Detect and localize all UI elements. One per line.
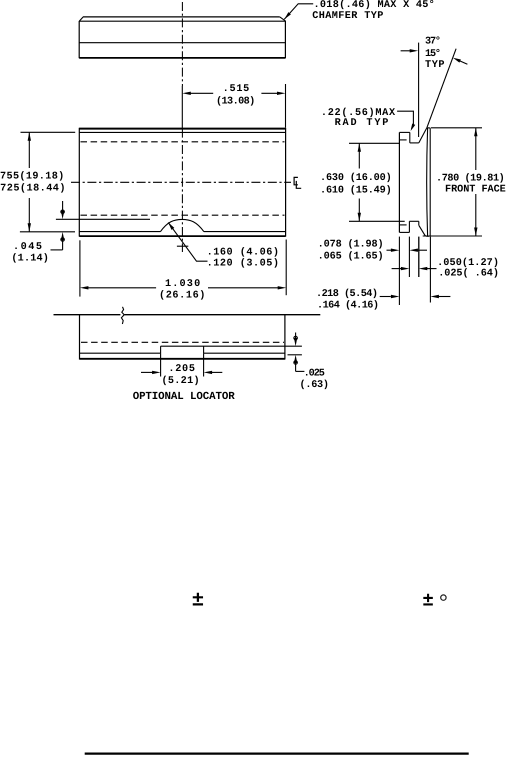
svg-text:OPTIONAL LOCATOR: OPTIONAL LOCATOR — [133, 391, 236, 403]
.160/.120 leader line — [168, 222, 207, 261]
bottom view: right edge — [284, 315, 286, 360]
svg-text:.630 (16.00): .630 (16.00) — [320, 172, 392, 184]
svg-text:.755(19.18): .755(19.18) — [0, 171, 64, 183]
.045 lower arrow (up) — [61, 232, 64, 241]
.755 bottom arrow — [28, 223, 31, 232]
top view: bottom edge — [79, 57, 285, 59]
bottom view: top line left — [54, 314, 121, 316]
bottom view: break mark — [121, 307, 124, 324]
top view: left edge — [78, 21, 80, 58]
.025 upper arrow hook — [294, 336, 298, 340]
.205 right arrow — [204, 371, 213, 374]
.050 right arrow — [419, 267, 428, 270]
front view: horizontal centerline — [71, 181, 291, 183]
1.030 dim line right — [208, 287, 279, 289]
side view: top groove floor — [410, 142, 419, 144]
top view: front top edge — [79, 20, 285, 22]
.045 upper arrow (down) — [61, 211, 64, 220]
bottom view: inner line right — [204, 352, 285, 354]
top view: right edge — [284, 21, 286, 59]
angle dim right arrow — [453, 58, 461, 63]
svg-text:±: ± — [422, 589, 433, 611]
bottom view: locator top line + ext — [161, 345, 302, 347]
angle dim left arrow tail — [401, 50, 411, 52]
.630 ext line bottom — [349, 220, 405, 222]
side view: front face right line — [429, 128, 431, 236]
top view: top edge (chamfer crest) — [83, 16, 280, 18]
.780 dim line lower — [475, 194, 477, 236]
bottom view: bottom edge — [80, 358, 285, 360]
.078 right arrow tail — [418, 249, 428, 251]
ext line V2 groove wall — [408, 237, 410, 277]
svg-text:CHAMFER TYP: CHAMFER TYP — [312, 11, 383, 22]
svg-text:TYP: TYP — [425, 60, 445, 71]
ext line V3 groove outer — [418, 237, 420, 277]
bottom view: top line right — [125, 314, 321, 316]
degree symbol right — [441, 595, 446, 600]
svg-text:(13.08): (13.08) — [216, 95, 255, 107]
side view: front face bottom edge curve — [425, 235, 430, 238]
.050 left arrow tail — [392, 268, 401, 270]
svg-text:.078 (1.98): .078 (1.98) — [318, 239, 384, 251]
.218 right arrow — [430, 295, 439, 298]
svg-text:RAD TYP: RAD TYP — [335, 118, 389, 129]
front view: right edge — [285, 128, 287, 237]
svg-text:.045: .045 — [13, 242, 42, 253]
1.030 right arrow — [278, 286, 287, 289]
.205 ext line left — [160, 353, 162, 376]
side view: bottom groove corner — [418, 221, 420, 225]
1.030 ext line right — [285, 240, 287, 296]
centerline symbol C — [294, 177, 298, 184]
.780 ext line bottom — [423, 235, 482, 237]
svg-text:FRONT FACE: FRONT FACE — [445, 184, 506, 195]
svg-text:.725(18.44): .725(18.44) — [0, 182, 66, 194]
.780 bottom arrow — [474, 228, 477, 237]
svg-text:.205: .205 — [168, 364, 195, 375]
svg-text:.164 (4.16): .164 (4.16) — [317, 300, 379, 312]
.160/.120 leader arrowhead — [168, 222, 174, 230]
.078 left arrow — [391, 249, 400, 252]
svg-text:.018(.46) MAX X 45°: .018(.46) MAX X 45° — [314, 0, 435, 11]
svg-text:.120 (3.05): .120 (3.05) — [207, 258, 279, 270]
side view: top groove wall — [409, 132, 411, 143]
svg-text:±: ± — [192, 589, 204, 612]
angle construction slant line — [427, 49, 456, 129]
.515 ext line left (centerline) — [181, 86, 183, 128]
svg-text:.160 (4.06): .160 (4.06) — [207, 246, 279, 258]
side view: bottom step line — [399, 224, 406, 226]
top view: mid parting line — [79, 42, 285, 44]
side view: top angled face — [419, 128, 427, 143]
svg-text:.780 (19.81): .780 (19.81) — [436, 173, 505, 185]
side view: front face top edge curve — [427, 127, 431, 130]
side view: bottom groove ceiling — [409, 220, 418, 222]
side view: bottom surface — [399, 231, 409, 233]
svg-text:.025: .025 — [304, 369, 325, 380]
side view: front face left line — [426, 128, 429, 235]
.205 ext line right — [203, 353, 205, 376]
side view: back (left) edge — [398, 132, 400, 232]
.630 ext line top — [349, 142, 400, 144]
svg-text:.515: .515 — [223, 84, 250, 95]
.025 upper arrow tail — [295, 333, 297, 343]
front view: bottom outer edge — [79, 235, 285, 237]
.025 lower arrow tail — [295, 359, 297, 372]
.205 left arrow — [152, 371, 161, 374]
svg-text:(.63): (.63) — [300, 379, 330, 391]
.780 dim line upper — [475, 128, 477, 170]
.045 ext line at dome apex level — [56, 218, 150, 220]
svg-text:.025( .64): .025( .64) — [438, 267, 499, 279]
.205 left arrow tail — [141, 371, 153, 373]
front view: hidden line upper — [81, 141, 285, 143]
.025 upper arrow (down) — [294, 338, 297, 347]
.045 upper arrow tail — [62, 201, 64, 216]
.218 right arrow tail — [439, 296, 451, 298]
rad leader slant — [412, 125, 414, 129]
.630 dim line lower — [358, 199, 360, 222]
rad leader line — [397, 111, 413, 124]
front view: top inner line — [79, 131, 285, 133]
.078 left arrow tail — [387, 249, 392, 251]
front view: inner bottom line right of dome — [204, 231, 286, 233]
angle dim left arrow — [410, 49, 419, 52]
svg-text:15°: 15° — [425, 48, 441, 60]
.045 upper arrow hook — [61, 210, 65, 214]
bottom view: hidden line — [81, 341, 284, 343]
1.030 dim line left — [88, 287, 156, 289]
svg-text:(5.21): (5.21) — [162, 375, 200, 387]
bottom view: locator right wall — [203, 346, 205, 353]
.515 dim line left segment — [191, 92, 214, 94]
chamfer leader arrowhead — [284, 12, 291, 19]
.050 right arrow tail — [427, 268, 437, 270]
.755 dim line lower — [28, 198, 30, 232]
bottom view: left edge — [79, 315, 81, 360]
.780 ext line top — [431, 127, 482, 129]
.780 top arrow — [474, 128, 477, 137]
.050 left arrow — [401, 267, 410, 270]
front view: top outer edge — [79, 128, 285, 130]
.045 lower arrow tail — [62, 236, 64, 250]
top view: right chamfer — [280, 17, 286, 21]
.515 left arrow — [182, 92, 191, 95]
chamfer leader line — [284, 4, 313, 19]
.218 left arrow — [391, 295, 400, 298]
ext line V4 front face — [429, 237, 431, 303]
front view: inner bottom line left of dome — [79, 231, 160, 233]
svg-text:.610 (15.49): .610 (15.49) — [320, 184, 392, 196]
svg-text:.065 (1.65): .065 (1.65) — [318, 251, 384, 263]
.755 dim line upper — [28, 132, 30, 168]
front view: centerline end tick — [177, 245, 188, 247]
ext line V1 back face — [398, 237, 400, 305]
.045 leader elbow — [51, 249, 63, 251]
1.030 ext line left — [79, 240, 81, 296]
.218 left arrow tail — [380, 296, 391, 298]
angle construction vertical line — [418, 43, 420, 137]
front view: hidden line lower — [81, 214, 285, 216]
.078 right arrow — [409, 249, 418, 252]
angle dim right arrow tail — [460, 61, 468, 65]
front view: vertical centerline — [181, 129, 183, 252]
.025 ext line lower — [288, 354, 302, 356]
front view: locator dome arc — [160, 219, 204, 231]
.205 right arrow tail — [212, 371, 223, 373]
svg-text:.218 (5.54): .218 (5.54) — [316, 288, 378, 300]
rad leader arrowhead — [411, 124, 416, 132]
.755 ext line top — [21, 131, 76, 133]
svg-text:(1.14): (1.14) — [11, 253, 49, 265]
.755 top arrow — [28, 132, 31, 141]
.630 top arrow — [358, 143, 361, 152]
svg-text:.050(1.27): .050(1.27) — [437, 257, 499, 269]
side view: top step line — [399, 139, 406, 141]
.025 lower arrow (up) — [294, 355, 297, 364]
side view: bottom groove wall — [408, 221, 410, 232]
footer rule line — [85, 752, 469, 754]
.025 lower arrow hook — [294, 361, 298, 365]
top view: vertical centerline — [181, 2, 183, 86]
side view: top surface — [399, 131, 409, 133]
svg-text:(26.16): (26.16) — [159, 290, 205, 302]
bottom view: locator left wall — [160, 346, 162, 353]
.515 right arrow — [277, 92, 286, 95]
.630 dim line upper — [358, 143, 360, 168]
.025 leader elbow — [296, 370, 305, 372]
svg-text:1.030: 1.030 — [165, 279, 200, 290]
side view: bottom angled face — [419, 225, 426, 236]
top view: left chamfer — [79, 17, 83, 21]
.630 bottom arrow — [358, 213, 361, 222]
.755 ext line bottom — [20, 231, 75, 233]
svg-text:.22(.56)MAX: .22(.56)MAX — [321, 107, 396, 119]
centerline symbol L — [296, 181, 301, 188]
1.030 left arrow — [80, 286, 89, 289]
.045 lower arrow hook — [61, 238, 65, 242]
.515 ext line right — [285, 84, 287, 128]
bottom view: inner line left — [80, 352, 161, 354]
svg-text:37°: 37° — [425, 36, 441, 48]
.515 dim line right segment — [261, 92, 277, 94]
front view: left edge — [78, 128, 80, 237]
